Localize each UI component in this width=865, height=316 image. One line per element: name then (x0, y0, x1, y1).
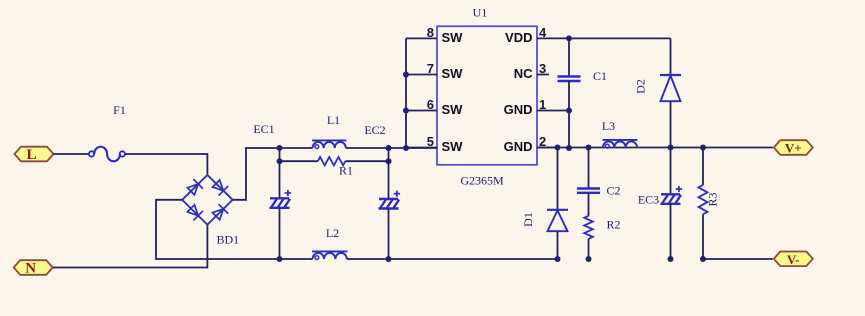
junction pin6 (403, 108, 409, 114)
svg-text:F1: F1 (113, 103, 126, 117)
SW bus wire (405, 38, 407, 147)
node D1 bottom (555, 256, 561, 262)
pin 8 stub (406, 37, 437, 39)
wire (345, 160, 388, 162)
svg-text:V-: V- (787, 252, 800, 267)
node EC3 bottom (668, 256, 674, 262)
node C2 top (586, 145, 592, 151)
wire (588, 148, 590, 189)
inductor L3 (603, 141, 637, 147)
svg-text:EC3: EC3 (638, 193, 659, 207)
wire (702, 214, 704, 259)
svg-text:SW: SW (442, 30, 464, 45)
capacitor EC3 (661, 193, 680, 195)
wire (557, 231, 559, 259)
svg-text:BD1: BD1 (217, 233, 240, 247)
svg-text:EC2: EC2 (364, 123, 385, 137)
resistor R2 (584, 216, 593, 239)
bridge rectifier BD1 (182, 175, 232, 225)
wire (346, 147, 437, 149)
wire (703, 258, 773, 260)
port N (14, 260, 53, 275)
node R3 bottom (700, 256, 706, 262)
pin 4 stub (537, 37, 569, 39)
node EC1 bottom (277, 256, 283, 262)
svg-text:L3: L3 (602, 119, 615, 133)
capacitor C2 (577, 187, 600, 189)
pin 6 stub (406, 110, 437, 112)
pin 7 stub (406, 74, 437, 76)
svg-text:R2: R2 (607, 218, 621, 232)
wire (702, 148, 704, 186)
svg-text:SW: SW (442, 102, 464, 117)
wire (280, 160, 318, 162)
svg-text:GND: GND (504, 102, 533, 117)
svg-text:R1: R1 (339, 164, 353, 178)
svg-text:D2: D2 (634, 79, 648, 94)
node EC2 bottom (386, 256, 392, 262)
junction pin7 (403, 72, 409, 78)
wire (557, 148, 559, 210)
wire (670, 148, 672, 195)
svg-text:C1: C1 (593, 69, 607, 83)
wire (156, 200, 280, 259)
svg-text:VDD: VDD (505, 30, 532, 45)
svg-text:N: N (25, 261, 36, 277)
svg-text:SW: SW (442, 139, 464, 154)
svg-text:C2: C2 (607, 184, 621, 198)
wire (279, 148, 281, 198)
port V- (774, 252, 813, 267)
svg-text:EC1: EC1 (253, 122, 274, 136)
wire (280, 258, 313, 260)
pin 2 stub (537, 147, 556, 149)
node C1 bottom (566, 145, 572, 151)
svg-text:5: 5 (427, 134, 434, 149)
svg-text:1: 1 (539, 97, 546, 112)
svg-text:G2365M: G2365M (460, 174, 504, 188)
node EC1 top (277, 145, 283, 151)
node D1 top (555, 145, 561, 151)
svg-text:NC: NC (514, 66, 533, 81)
svg-text:D1: D1 (521, 212, 535, 227)
svg-text:4: 4 (539, 25, 547, 40)
wire (569, 37, 671, 39)
node R2 bottom (586, 256, 592, 262)
wire (670, 204, 672, 259)
node R1 left (277, 158, 283, 164)
pin 5 stub (406, 147, 437, 149)
svg-text:U1: U1 (473, 6, 488, 20)
capacitor EC1 (270, 197, 289, 199)
wire (588, 193, 590, 216)
inductor L2 (313, 253, 347, 259)
wire (347, 258, 558, 260)
diode D2 (660, 74, 681, 76)
svg-text:SW: SW (442, 66, 464, 81)
inductor L1 (313, 142, 346, 148)
wire (54, 153, 90, 155)
wire (670, 101, 672, 148)
svg-text:V+: V+ (785, 141, 802, 156)
node D2 bottom (668, 145, 674, 151)
svg-text:6: 6 (427, 97, 434, 112)
capacitor EC2 (379, 198, 398, 200)
node pin4 (566, 35, 572, 41)
wire (588, 239, 590, 259)
IC U1 body (437, 26, 537, 165)
pin 3 stub (537, 74, 549, 76)
fuse F1 (89, 151, 94, 156)
wire (568, 81, 570, 148)
svg-text:3: 3 (539, 61, 546, 76)
port V+ (774, 140, 813, 155)
wire (53, 225, 208, 268)
node R3 top (700, 145, 706, 151)
resistor R3 (699, 185, 708, 214)
svg-text:L: L (26, 147, 36, 163)
diode D1 (547, 209, 568, 211)
svg-text:GND: GND (504, 139, 533, 154)
pin 1 stub (537, 110, 569, 112)
svg-text:8: 8 (427, 25, 434, 40)
node pin1 (566, 108, 572, 114)
node EC2 top (386, 145, 392, 151)
wire (568, 38, 570, 76)
svg-text:L1: L1 (327, 113, 340, 127)
wire (280, 147, 313, 149)
wire (279, 208, 281, 259)
capacitor C1 (558, 75, 581, 77)
svg-text:7: 7 (427, 61, 434, 76)
wire (233, 148, 280, 200)
wire (388, 148, 390, 199)
port L (15, 147, 54, 162)
wire (388, 209, 390, 260)
node R1 right (386, 158, 392, 164)
resistor R1 (318, 157, 346, 165)
wire (125, 154, 207, 175)
node pin5 junction (403, 145, 409, 151)
wire (537, 147, 773, 149)
svg-text:R3: R3 (706, 192, 720, 206)
wire (670, 38, 672, 75)
svg-text:L2: L2 (326, 226, 339, 240)
